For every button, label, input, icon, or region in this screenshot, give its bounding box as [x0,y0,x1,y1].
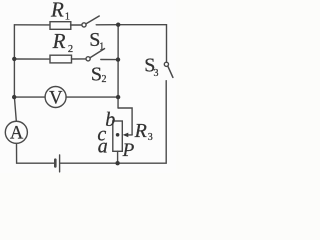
svg-text:2: 2 [102,74,107,85]
battery positive plate [59,155,61,172]
wire R1 to S1 [71,24,82,26]
svg-text:3: 3 [154,68,159,79]
switch S2 [86,49,105,61]
wire bottom left [17,143,56,163]
svg-text:R: R [50,0,64,21]
svg-text:A: A [10,123,24,143]
svg-text:1: 1 [65,11,70,22]
wire voltmeter branch left [14,96,45,98]
node dot bottom R3 junction [115,161,119,165]
wire R2 branch left lead [14,58,50,60]
node dot R3 contact c [116,133,120,137]
svg-text:3: 3 [148,132,153,143]
wiper arrow P lead [127,134,132,136]
node dot top S1 junction [116,23,120,27]
svg-text:1: 1 [99,41,104,52]
node dot left V junction [12,95,16,99]
svg-text:R: R [52,29,66,53]
voltmeter V [45,87,66,108]
wire S2 fixed side to node [101,59,118,61]
wire right lower vertical [60,81,166,164]
resistor R2 [50,55,72,63]
wire middle vertical [117,25,119,108]
wire voltmeter branch right [66,96,118,98]
wire R2 to S2 [72,58,87,60]
svg-text:P: P [122,140,135,161]
svg-text:a: a [98,136,108,158]
battery negative plate [54,160,57,167]
node dot S2 junction [116,57,120,61]
svg-text:b: b [105,109,115,131]
svg-text:V: V [49,89,63,109]
ammeter A [5,121,27,143]
svg-text:R: R [134,120,147,142]
svg-text:S: S [91,64,102,86]
wire rheostat bypass [118,108,132,135]
resistor R1 [50,22,71,30]
wire R1 branch left lead [14,24,49,26]
wire R3 bottom lead [117,151,119,163]
wire S1 fixed side to node [96,24,118,26]
wire left vertical [14,25,16,121]
node dot right V junction [116,95,120,99]
switch S3 [164,62,173,77]
switch S1 [82,16,99,27]
wire top right [118,25,166,63]
svg-text:2: 2 [68,44,73,55]
rheostat R3 body [113,121,123,151]
wiper arrowhead P [123,133,129,138]
node dot left R2 junction [12,57,16,61]
